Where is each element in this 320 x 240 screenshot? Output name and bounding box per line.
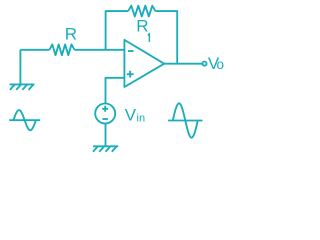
svg-text:R: R: [136, 17, 148, 36]
svg-text:V: V: [125, 105, 137, 124]
svg-text:R: R: [65, 25, 77, 44]
svg-text:o: o: [217, 57, 225, 72]
svg-text:in: in: [137, 113, 146, 125]
